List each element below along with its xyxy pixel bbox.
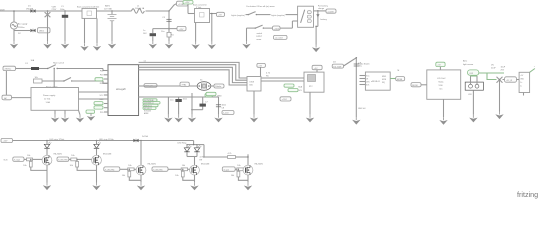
- svg-text:LCD 16x2: LCD 16x2: [437, 78, 445, 80]
- svg-text:10k: 10k: [182, 165, 186, 167]
- svg-text:switch: switch: [257, 32, 263, 35]
- svg-text:10u: 10u: [170, 100, 173, 102]
- svg-text:LED strip 12Vdc: LED strip 12Vdc: [99, 138, 114, 141]
- svg-text:MOSI: MOSI: [397, 79, 403, 81]
- svg-text:10k: 10k: [23, 165, 27, 167]
- svg-text:100uH 1A: 100uH 1A: [135, 7, 145, 10]
- svg-text:D1/RX(SCL): D1/RX(SCL): [144, 103, 154, 105]
- svg-text:25V: 25V: [501, 70, 505, 72]
- svg-text:light sensor: light sensor: [463, 63, 474, 66]
- svg-text:10k: 10k: [122, 175, 126, 177]
- svg-text:D4: D4: [333, 62, 336, 64]
- svg-text:D+: D+: [520, 82, 522, 84]
- svg-text:mom.: mom.: [257, 39, 263, 41]
- svg-text:Buck converter 13.8 Vdc: Buck converter 13.8 Vdc: [77, 5, 99, 8]
- svg-text:IRLZ44N: IRLZ44N: [148, 164, 157, 166]
- svg-text:X1: X1: [200, 80, 203, 82]
- svg-text:D0/TX(SDA): D0/TX(SDA): [144, 99, 154, 102]
- svg-text:VCC: VCC: [100, 95, 105, 97]
- svg-text:22uF: 22uF: [491, 68, 496, 70]
- svg-text:MISO/D12: MISO/D12: [144, 105, 152, 107]
- svg-text:16mhz: 16mhz: [215, 86, 221, 88]
- svg-text:DPDT: DPDT: [257, 36, 263, 38]
- svg-text:D2: D2: [18, 33, 21, 35]
- svg-text:C7: C7: [205, 102, 208, 104]
- svg-text:4.7k: 4.7k: [228, 153, 233, 155]
- svg-text:4.7k: 4.7k: [266, 73, 271, 75]
- svg-text:R5: R5: [266, 76, 269, 78]
- svg-text:D4 4148: D4 4148: [334, 66, 343, 68]
- svg-text:D4 5A: D4 5A: [142, 135, 148, 138]
- svg-text:D1: D1: [28, 6, 31, 8]
- svg-text:10uF: 10uF: [501, 67, 506, 69]
- svg-text:AREF: AREF: [144, 112, 149, 115]
- svg-text:AC supply: AC supply: [18, 23, 28, 26]
- svg-text:M: M: [398, 70, 400, 72]
- svg-text:LED strip 12Vdc: LED strip 12Vdc: [50, 138, 65, 141]
- svg-text:charge: charge: [318, 7, 325, 10]
- svg-text:B20: B20: [250, 85, 253, 87]
- svg-text:+5V: +5V: [314, 68, 318, 70]
- svg-text:atmega8: atmega8: [116, 88, 126, 91]
- svg-text:IRLZ44N: IRLZ44N: [201, 164, 210, 166]
- svg-text:GND 3v3: GND 3v3: [358, 108, 365, 110]
- svg-text:+: +: [534, 66, 536, 68]
- svg-text:Main switch: Main switch: [53, 61, 64, 64]
- svg-text:230Vac: 230Vac: [18, 27, 25, 29]
- svg-text:100n: 100n: [222, 105, 227, 107]
- svg-text:+CD2: +CD2: [282, 99, 288, 101]
- svg-text:LED Ring: LED Ring: [178, 143, 187, 145]
- svg-text:10A: 10A: [31, 59, 35, 62]
- svg-text:MOSI: MOSI: [412, 85, 418, 87]
- svg-text:10k: 10k: [27, 155, 31, 157]
- svg-text:C1: C1: [61, 6, 64, 8]
- svg-text:+12V: +12V: [185, 2, 190, 4]
- svg-text:PD2: PD2: [100, 70, 104, 72]
- svg-text:GND: GND: [217, 96, 222, 98]
- svg-text:S_LED-9Wx: S_LED-9Wx: [105, 169, 114, 171]
- svg-text:100n: 100n: [183, 99, 188, 101]
- svg-text:1u: 1u: [143, 30, 145, 32]
- svg-text:+12V: +12V: [179, 29, 184, 31]
- svg-text:For button ON on off (on) mom.: For button ON on off (on) mom.: [247, 5, 276, 8]
- svg-text:100n: 100n: [60, 9, 65, 11]
- svg-text:LDR: LDR: [468, 94, 472, 96]
- svg-text:CE: CE: [366, 78, 368, 80]
- svg-text:+13.8V: +13.8V: [327, 11, 334, 13]
- svg-text:10u: 10u: [161, 31, 164, 33]
- svg-text:VDR: VDR: [52, 7, 57, 9]
- svg-text:F1: F1: [26, 63, 29, 65]
- svg-text:5110: 5110: [439, 85, 443, 87]
- svg-text:12V 7Ah: 12V 7Ah: [104, 8, 112, 11]
- svg-text:SCL: SCL: [299, 90, 303, 92]
- svg-text:IRLZ44N: IRLZ44N: [255, 164, 264, 166]
- svg-text:MOSI: MOSI: [382, 79, 387, 81]
- svg-text:1N5408: 1N5408: [26, 9, 34, 11]
- svg-text:S_LED-9Wx: S_LED-9Wx: [153, 169, 162, 171]
- svg-text:sw+CD2: sw+CD2: [275, 38, 284, 40]
- svg-text:230Vac: 230Vac: [5, 69, 12, 71]
- svg-text:1-wire: 1-wire: [223, 112, 229, 115]
- svg-text:battery: battery: [321, 18, 328, 21]
- svg-text:LED1: LED1: [39, 31, 45, 33]
- svg-text:Lights (regular): Lights (regular): [271, 14, 285, 17]
- svg-text:SDA: SDA: [298, 86, 302, 89]
- svg-text:10k: 10k: [70, 165, 74, 167]
- svg-text:16V: 16V: [143, 33, 147, 35]
- svg-text:10k: 10k: [231, 175, 235, 177]
- svg-text:+5C_W: +5C_W: [506, 80, 512, 82]
- svg-text:Radio Switch: Radio Switch: [358, 63, 370, 66]
- svg-text:S_LED-9Wx: S_LED-9Wx: [58, 159, 67, 161]
- svg-text:PD5: PD5: [100, 112, 104, 114]
- svg-text:+5V: +5V: [218, 15, 222, 17]
- svg-text:nRF24L01: nRF24L01: [371, 81, 380, 83]
- svg-text:+12V: +12V: [3, 141, 8, 143]
- svg-text:+5V: +5V: [258, 66, 262, 68]
- svg-text:10u: 10u: [359, 66, 362, 68]
- svg-text:+CD2: +CD2: [274, 28, 280, 30]
- svg-text:GND: GND: [99, 99, 104, 101]
- svg-text:Lights (regular): Lights (regular): [231, 14, 245, 17]
- svg-text:12 Vdc: 12 Vdc: [44, 99, 50, 101]
- svg-text:DS18: DS18: [250, 82, 255, 84]
- svg-text:10k: 10k: [128, 165, 132, 167]
- svg-text:R1: R1: [171, 35, 174, 37]
- svg-text:ADC: ADC: [463, 60, 468, 63]
- svg-text:S_spot: S_spot: [224, 168, 230, 171]
- svg-text:XTAL: XTAL: [182, 84, 188, 87]
- svg-text:C3: C3: [162, 17, 165, 19]
- svg-text:Power supply: Power supply: [43, 94, 56, 97]
- svg-text:1N: 1N: [491, 65, 494, 67]
- svg-text:275V: 275V: [52, 9, 57, 11]
- svg-text:fritzing: fritzing: [517, 190, 538, 199]
- svg-text:10k: 10k: [175, 175, 179, 177]
- svg-text:10k: 10k: [71, 155, 75, 157]
- svg-text:IRLZ44N: IRLZ44N: [103, 154, 112, 156]
- svg-text:S_regul: S_regul: [14, 158, 20, 161]
- svg-text:IRLZ44N: IRLZ44N: [54, 154, 63, 156]
- svg-text:1.6A: 1.6A: [46, 101, 51, 104]
- svg-text:10k: 10k: [237, 165, 241, 167]
- svg-text:SC/D: SC/D: [4, 160, 9, 162]
- svg-text:L1: L1: [137, 5, 140, 7]
- svg-text:C8: C8: [222, 107, 225, 109]
- svg-text:R9: R9: [200, 160, 203, 162]
- svg-text:BAT1: BAT1: [105, 5, 111, 8]
- svg-text:PD3: PD3: [100, 75, 104, 77]
